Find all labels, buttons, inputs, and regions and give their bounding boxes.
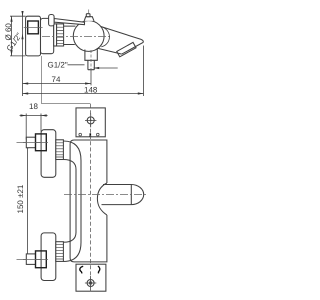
svg-text:150 ±21: 150 ±21 — [16, 184, 25, 213]
svg-text:18: 18 — [29, 102, 38, 111]
svg-text:148: 148 — [84, 85, 98, 94]
svg-text:74: 74 — [52, 75, 61, 84]
svg-text:G1/2": G1/2" — [48, 60, 68, 69]
